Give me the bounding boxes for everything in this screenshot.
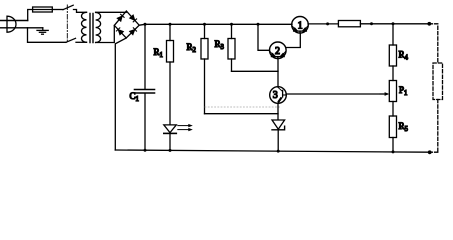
transistor Q1 xyxy=(292,17,309,34)
plug P (AC mains plug) xyxy=(0,16,43,32)
svg-text:P1: P1 xyxy=(399,85,407,97)
LED indicator diode xyxy=(164,125,177,150)
wire (live prong up to fuse) xyxy=(28,10,33,21)
diode D4 (lower-right edge) xyxy=(130,28,137,35)
zener diode DW xyxy=(272,120,285,151)
bridge rectifier frame xyxy=(114,11,139,38)
wire (switch to transformer primary top) xyxy=(74,10,87,13)
LED arrows xyxy=(178,124,193,131)
resistor R5 xyxy=(389,116,396,152)
load RL (dashed box) xyxy=(433,63,443,100)
wire (T3 base to potentiometer wiper) xyxy=(286,93,388,95)
transistor Q2 xyxy=(270,42,287,59)
node dots on bottom rail xyxy=(144,149,432,154)
dotted line (faint screened line above R2 wire) xyxy=(205,106,281,108)
wire (T2 collector up to raw rail) xyxy=(258,24,270,50)
wire (T3 emitter down to zener) xyxy=(277,103,279,120)
wire (neutral prong down to bottom switch) xyxy=(28,28,67,43)
diode D3 (lower-left edge) xyxy=(116,28,123,35)
diode D1 (upper-left edge) xyxy=(118,14,125,21)
wire (R2 bottom to zener node) xyxy=(205,113,279,115)
svg-text:R5: R5 xyxy=(399,121,409,133)
wire (dashed from load to bottom rail) xyxy=(430,100,438,153)
transformer T primary winding xyxy=(82,12,87,42)
wire (secondary top to bridge AC1) xyxy=(96,11,127,13)
node dots on top rail xyxy=(144,22,432,26)
svg-text:1: 1 xyxy=(298,20,303,31)
wire (T2 base down to T3 collector) xyxy=(277,58,279,87)
fuse FU xyxy=(33,7,53,12)
wire (secondary bottom to bridge AC2) xyxy=(96,26,115,43)
wire top rail (raw and regulated DC +) xyxy=(139,23,292,26)
svg-text:R4: R4 xyxy=(399,50,409,62)
switch S1a (top pole) xyxy=(63,5,73,10)
svg-text:R2: R2 xyxy=(187,42,197,54)
transistor Q3 xyxy=(270,87,287,104)
potentiometer P1 xyxy=(389,81,396,117)
transformer core xyxy=(90,14,93,43)
resistor R3 xyxy=(228,24,235,71)
resistor R6 (series resistor on output rail) xyxy=(338,21,360,27)
svg-text:2: 2 xyxy=(275,46,280,57)
svg-text:R1: R1 xyxy=(154,47,163,59)
ground xyxy=(37,28,48,34)
transformer T secondary winding xyxy=(96,13,101,43)
wire (T2 emitter to T1 base) xyxy=(286,34,301,48)
wire (fuse to switch S1a) xyxy=(52,9,63,11)
potentiometer wiper arrow xyxy=(380,92,389,96)
wire (R3 bottom to T2 base / T3 collector line) xyxy=(232,70,279,72)
resistor R1 xyxy=(167,24,174,124)
svg-text:3: 3 xyxy=(273,90,278,101)
capacitor C1 xyxy=(135,24,155,150)
wire (switch to transformer primary bottom) xyxy=(76,41,87,43)
resistor R4 xyxy=(389,24,396,81)
wire (dashed to external load, top) xyxy=(429,24,438,63)
wire bottom rail (0V) xyxy=(115,150,429,152)
resistor R2 xyxy=(201,24,208,113)
switch S1b (bottom pole) xyxy=(66,38,76,42)
switch linkage (dash-dot line) xyxy=(66,5,68,41)
svg-text:R3: R3 xyxy=(215,39,225,51)
diode D2 (upper-right edge) xyxy=(130,15,137,22)
wire (bridge negative down to bottom rail) xyxy=(115,38,126,150)
